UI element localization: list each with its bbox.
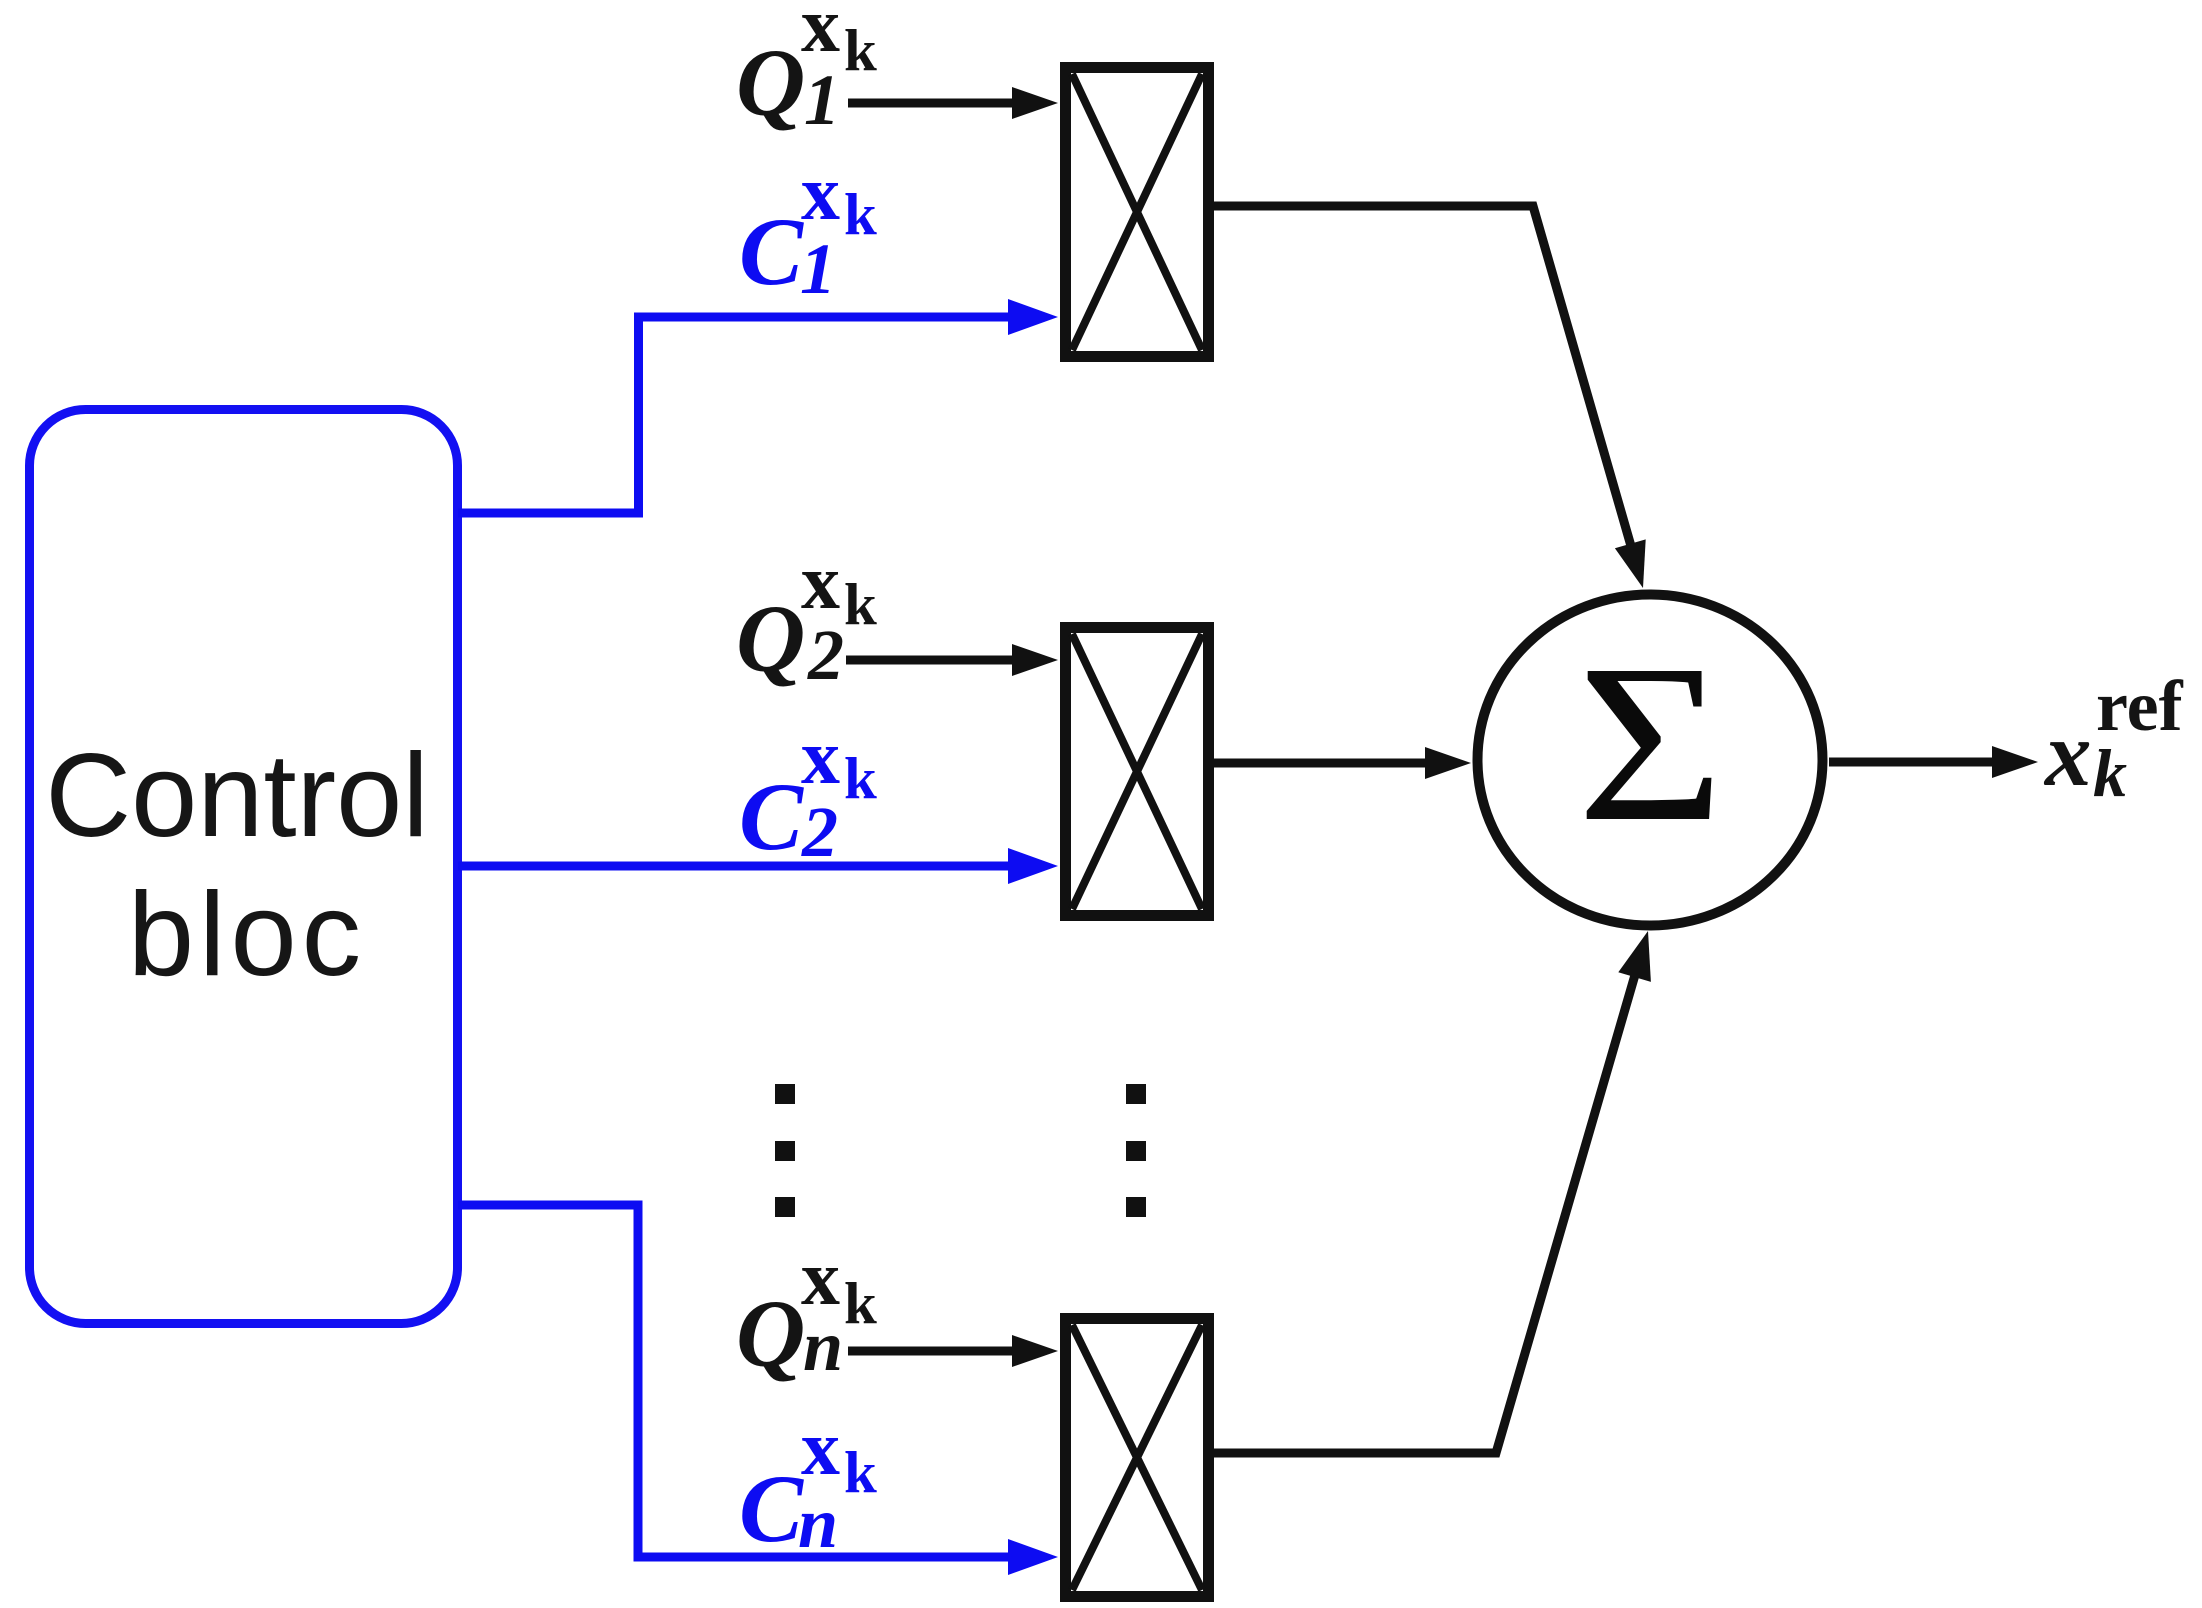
svg-text:Q: Q (736, 1280, 805, 1387)
label xk_ref (output) (2043, 666, 2184, 811)
label C2 (C2^xk, blue) (739, 713, 877, 872)
label Cn (Cn^xk, blue) (739, 1404, 877, 1563)
control block label "Control bloc" (45, 729, 429, 1001)
wire summer output (1829, 746, 2038, 778)
svg-text:n: n (798, 1483, 838, 1563)
svg-text:C: C (739, 198, 804, 305)
svg-text:k: k (844, 1439, 877, 1505)
svg-text:Q: Q (736, 585, 805, 692)
wire M3 output to summer (black, elbow + diagonal arrow) (1214, 931, 1651, 1453)
multiplier M3 (box with X) (1066, 1319, 1209, 1597)
svg-text:k: k (2093, 735, 2127, 811)
wire Q1 (black arrow into multiplier M1) (848, 87, 1058, 119)
wire Cn (blue, control block to multiplier M3) (458, 1205, 1058, 1575)
svg-text:k: k (844, 1270, 877, 1336)
svg-text:C: C (739, 1455, 804, 1562)
svg-text:x: x (801, 713, 840, 800)
label Q2 (Q2^xk) (736, 538, 877, 695)
multiplier M1 (box with X) (1066, 68, 1209, 357)
wire C1 (blue, control block to multiplier M1) (458, 299, 1058, 513)
svg-text:Control: Control (45, 729, 429, 862)
svg-text:k: k (844, 181, 877, 247)
svg-text:x: x (801, 538, 840, 625)
wire Qn (black arrow into multiplier M3) (848, 1335, 1058, 1367)
control block (rounded rect) (30, 410, 458, 1324)
dots column A (vertical ellipsis) (775, 1084, 795, 1217)
svg-text:2: 2 (807, 615, 844, 695)
label C1 (C1^xk, blue) (739, 149, 877, 309)
wire C2 (blue, control block to multiplier M2) (458, 848, 1058, 884)
svg-text:k: k (844, 17, 877, 83)
svg-text:1: 1 (800, 229, 836, 309)
summer U1 (circle with sigma) (1478, 595, 1823, 926)
wire Q2 (black arrow into multiplier M2) (846, 644, 1058, 676)
svg-text:x: x (801, 1234, 840, 1321)
multiplier M2 (box with X) (1066, 628, 1209, 916)
svg-text:x: x (801, 149, 840, 236)
svg-text:k: k (844, 745, 877, 811)
wire M2 output to summer (black arrow) (1214, 747, 1471, 779)
label Q1 (Q1^xk) (736, 0, 877, 140)
svg-text:Q: Q (736, 29, 805, 136)
svg-text:k: k (844, 571, 877, 637)
svg-text:C: C (739, 763, 804, 870)
dots column B (vertical ellipsis) (1126, 1084, 1146, 1217)
svg-text:bloc: bloc (128, 868, 366, 1001)
svg-text:ref: ref (2096, 666, 2184, 746)
svg-text:x: x (801, 1404, 840, 1491)
svg-text:x: x (801, 0, 840, 68)
svg-text:x: x (2043, 703, 2092, 806)
svg-text:1: 1 (804, 60, 840, 140)
wire M1 output to summer (black, elbow + diagonal arrow) (1214, 206, 1646, 588)
svg-text:2: 2 (801, 792, 838, 872)
label Qn (Qn^xk) (736, 1234, 877, 1387)
svg-text:Σ: Σ (1577, 617, 1724, 868)
